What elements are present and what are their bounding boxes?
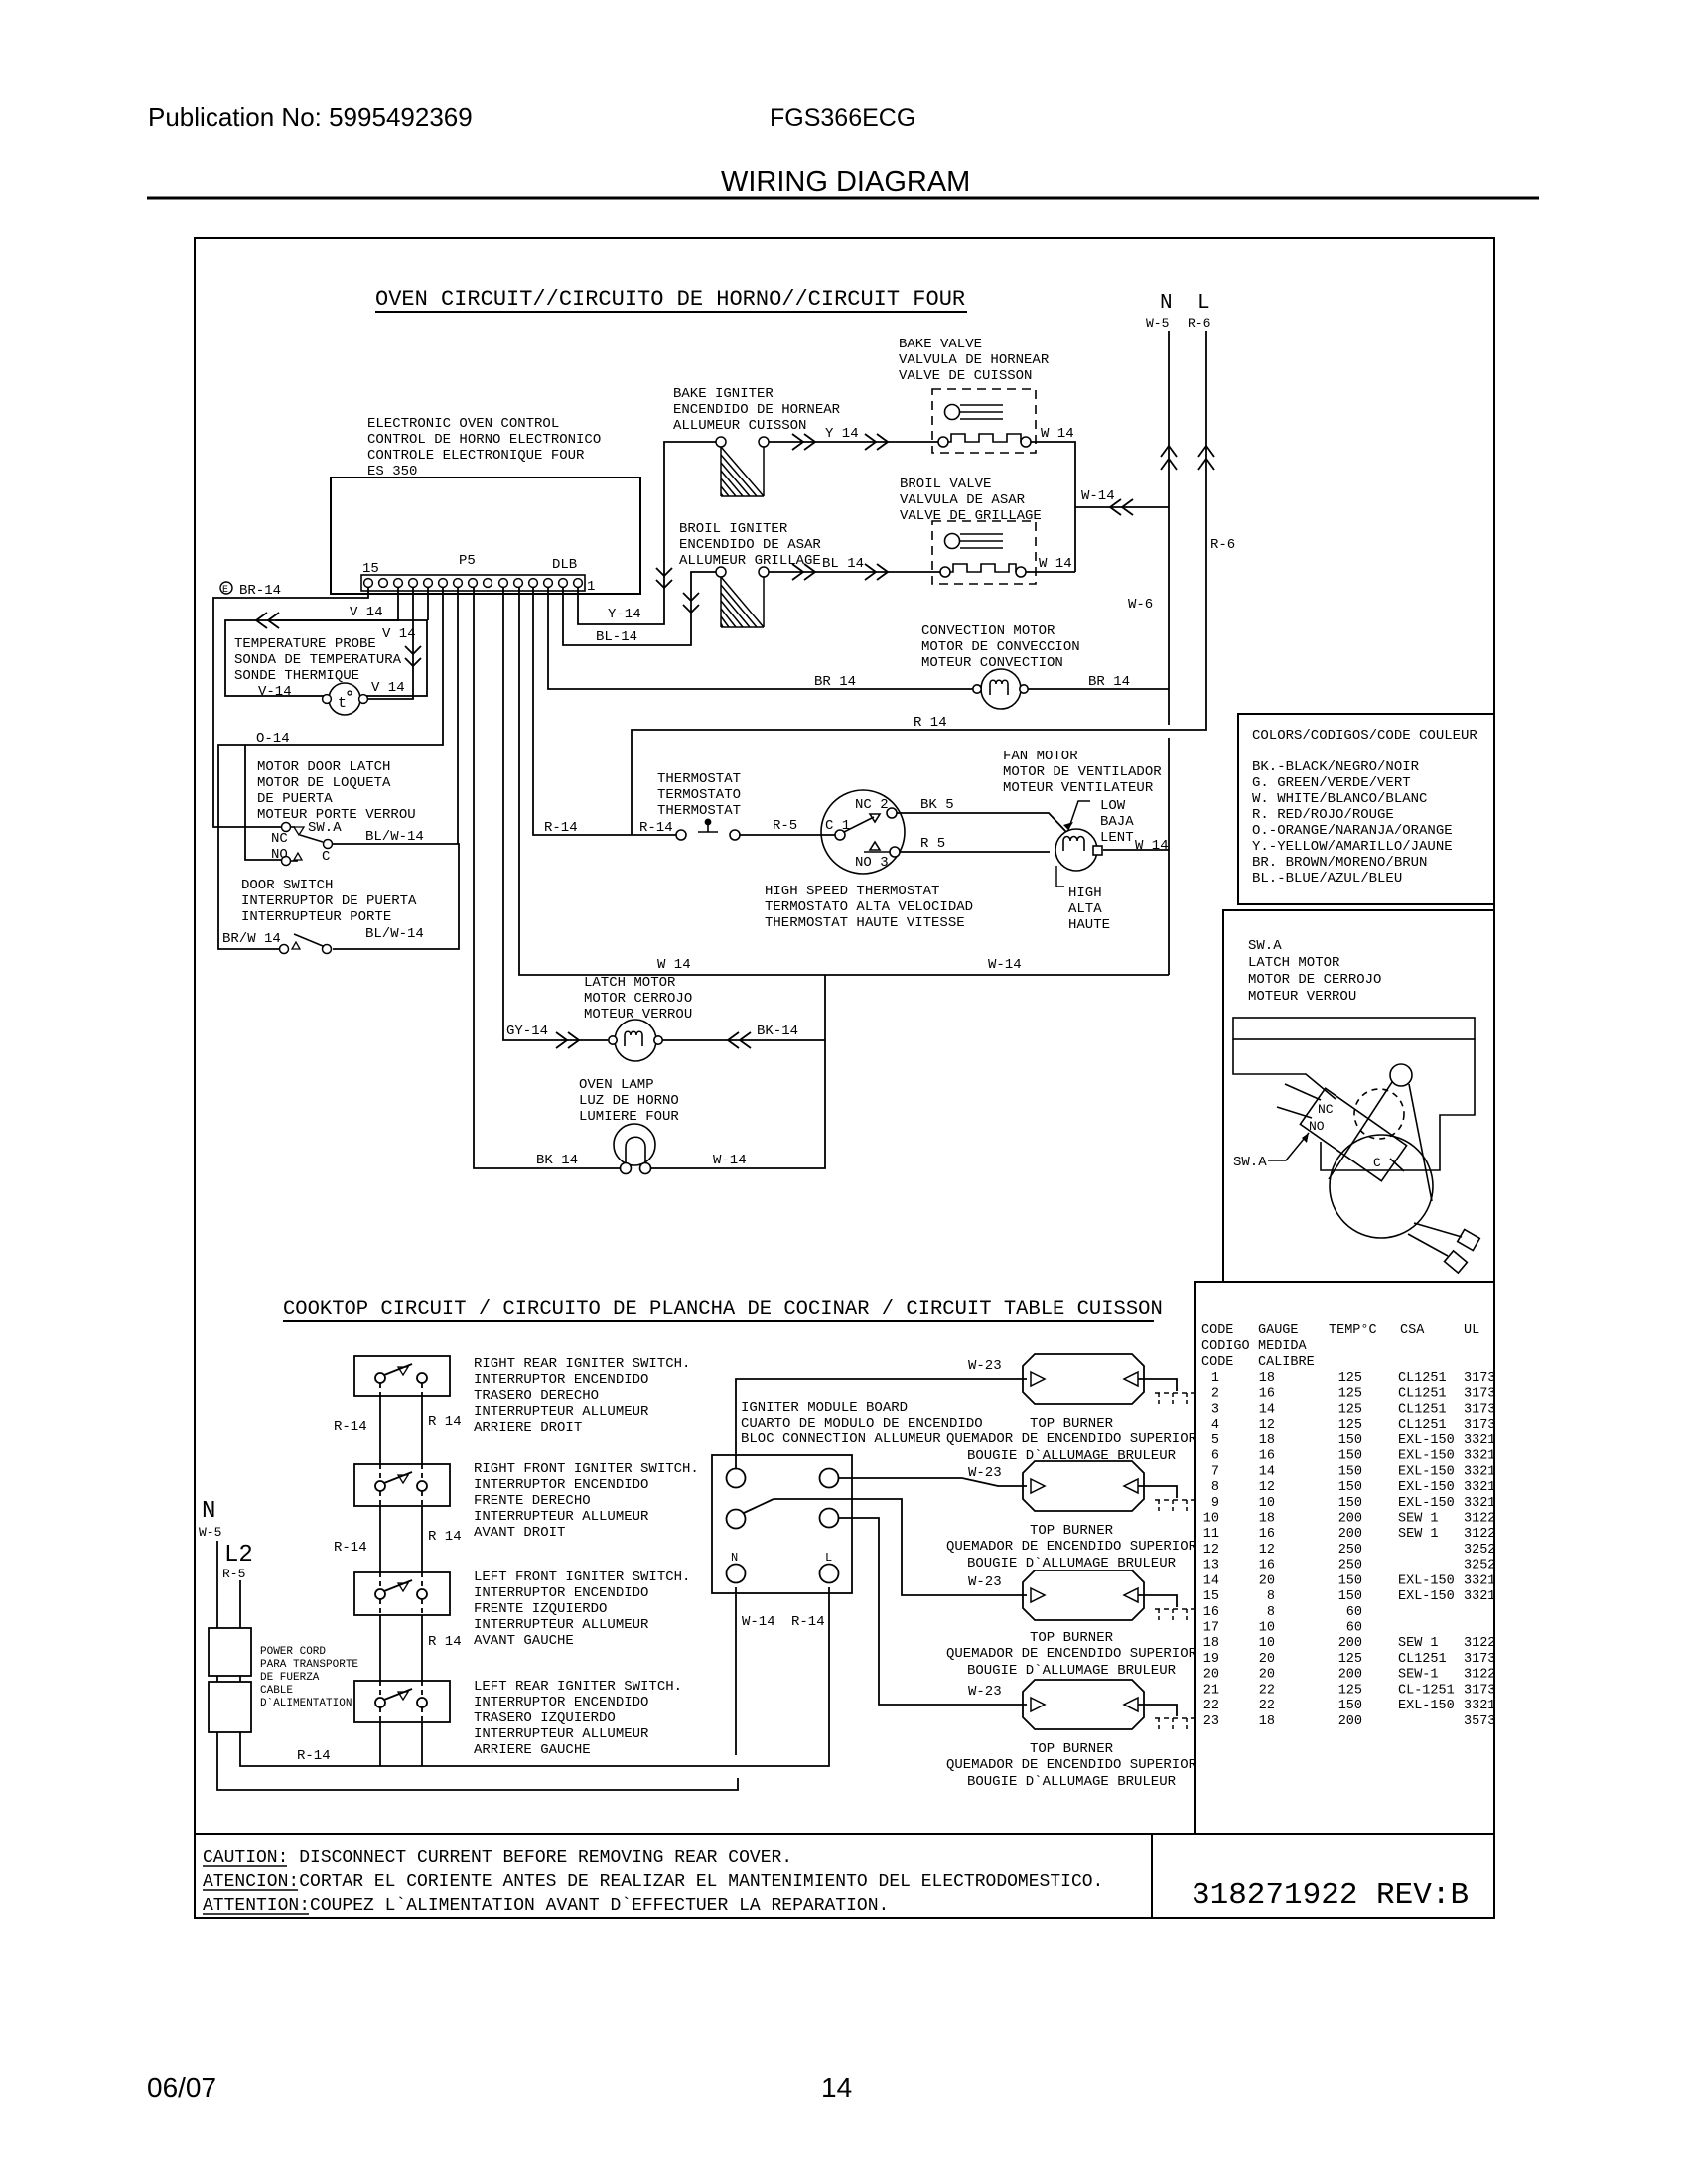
svg-text:SW.A: SW.A — [1233, 1155, 1267, 1170]
svg-text:21: 21 — [1203, 1683, 1219, 1698]
svg-text:SONDE THERMIQUE: SONDE THERMIQUE — [234, 668, 359, 684]
igniter module board A1 box — [712, 1455, 852, 1593]
svg-text:R 14: R 14 — [428, 1529, 462, 1545]
svg-text:O.-ORANGE/NARANJA/ORANGE: O.-ORANGE/NARANJA/ORANGE — [1252, 823, 1453, 839]
wire R-14 thermostat feed from pin 11 — [533, 587, 676, 835]
svg-text:TOP BURNER: TOP BURNER — [1030, 1630, 1114, 1646]
connector P5 pin circles — [364, 579, 583, 588]
svg-text:W 14: W 14 — [1135, 838, 1169, 854]
svg-text:CODE: CODE — [1201, 1323, 1233, 1338]
svg-text:EXL-150: EXL-150 — [1398, 1433, 1455, 1448]
label BK-5 — [920, 797, 954, 813]
label BK-14 lamp — [536, 1153, 578, 1168]
svg-text:12: 12 — [1259, 1543, 1275, 1558]
oven circuit section title — [375, 287, 967, 312]
svg-text:10: 10 — [1203, 1512, 1219, 1527]
svg-text:R 14: R 14 — [914, 715, 947, 731]
svg-text:AVANT GAUCHE: AVANT GAUCHE — [474, 1633, 574, 1649]
wire BL-14 from pin to broil igniter — [563, 572, 716, 645]
svg-text:125: 125 — [1338, 1652, 1362, 1667]
svg-text:ATTENTION:COUPEZ L`ALIMENTATIO: ATTENTION:COUPEZ L`ALIMENTATION AVANT D`… — [203, 1896, 889, 1916]
svg-text:W-14: W-14 — [1081, 488, 1115, 504]
svg-text:BK 5: BK 5 — [920, 797, 954, 813]
svg-text:CAUTION: DISCONNECT CURRENT BE: CAUTION: DISCONNECT CURRENT BEFORE REMOV… — [203, 1848, 792, 1868]
cooktop circuit section title — [283, 1298, 1163, 1321]
label R-5 fan — [920, 836, 945, 852]
label W-23 burner 2 — [968, 1465, 1002, 1481]
svg-text:COOKTOP CIRCUIT / CIRCUITO DE: COOKTOP CIRCUIT / CIRCUITO DE PLANCHA DE… — [283, 1298, 1163, 1321]
svg-text:23: 23 — [1203, 1714, 1219, 1729]
svg-text:TOP BURNER: TOP BURNER — [1030, 1523, 1114, 1539]
svg-text:CL-1251: CL-1251 — [1398, 1683, 1455, 1698]
svg-text:POWER CORD: POWER CORD — [260, 1646, 326, 1658]
svg-text:125: 125 — [1338, 1371, 1362, 1386]
svg-text:200: 200 — [1338, 1714, 1362, 1729]
motor door latch text — [257, 759, 416, 823]
svg-text:QUEMADOR DE ENCENDIDO SUPERIOR: QUEMADOR DE ENCENDIDO SUPERIOR — [946, 1539, 1197, 1555]
svg-text:V 14: V 14 — [371, 680, 405, 696]
svg-text:THERMOSTAT: THERMOSTAT — [657, 803, 741, 819]
bake valve text — [899, 337, 1050, 384]
valve V1 bake valve — [932, 389, 1036, 453]
svg-text:15: 15 — [362, 561, 379, 577]
wire board to top burner 3 — [774, 1499, 1027, 1595]
svg-text:3321: 3321 — [1464, 1496, 1495, 1511]
svg-text:16: 16 — [1203, 1605, 1219, 1620]
igniter IG2 broil hatched element — [716, 567, 769, 627]
svg-text:LATCH MOTOR: LATCH MOTOR — [584, 975, 676, 991]
svg-text:V 14: V 14 — [382, 626, 416, 642]
label R-14 bottom rail — [297, 1748, 331, 1764]
svg-text:TERMOSTATO: TERMOSTATO — [657, 787, 741, 803]
label W-6 — [1128, 597, 1153, 613]
svg-text:20: 20 — [1203, 1668, 1219, 1683]
svg-text:EXL-150: EXL-150 — [1398, 1699, 1455, 1713]
svg-text:SEW 1: SEW 1 — [1398, 1636, 1439, 1651]
top burner 3 spark electrode — [1155, 1609, 1195, 1623]
igniter switch SW2 right front box — [354, 1464, 450, 1506]
svg-text:14: 14 — [1259, 1402, 1275, 1417]
latch SW.A pointer label — [1233, 1133, 1309, 1170]
svg-text:BL 14: BL 14 — [822, 556, 864, 572]
right front igniter switch text — [474, 1461, 699, 1541]
svg-text:TOP BURNER: TOP BURNER — [1030, 1416, 1114, 1432]
svg-text:RIGHT REAR IGNITER SWITCH.: RIGHT REAR IGNITER SWITCH. — [474, 1356, 690, 1372]
label BK-14 — [757, 1024, 798, 1039]
svg-text:3321: 3321 — [1464, 1589, 1495, 1604]
svg-text:CABLE: CABLE — [260, 1685, 293, 1697]
label BR-14 right — [1088, 674, 1130, 690]
motor M2 fan motor — [1055, 829, 1102, 871]
svg-text:P5: P5 — [459, 553, 476, 569]
svg-text:250: 250 — [1338, 1543, 1362, 1558]
svg-text:16: 16 — [1259, 1449, 1275, 1464]
colors legend text — [1252, 728, 1477, 887]
svg-text:BL/W-14: BL/W-14 — [365, 829, 424, 845]
top burner 3 caption — [946, 1630, 1197, 1679]
latch motor connector rods — [1408, 1223, 1479, 1273]
svg-text:TOP BURNER: TOP BURNER — [1030, 1741, 1114, 1757]
svg-text:NC: NC — [1318, 1102, 1334, 1117]
svg-text:ENCENDIDO DE ASAR: ENCENDIDO DE ASAR — [679, 537, 821, 553]
svg-text:COLORS/CODIGOS/CODE COULEUR: COLORS/CODIGOS/CODE COULEUR — [1252, 728, 1477, 744]
svg-text:3173: 3173 — [1464, 1387, 1495, 1402]
igniter switch SW4 left rear box — [354, 1681, 450, 1722]
wire BL/W-14 from SW.A C to pin 7 and down to door switch — [333, 587, 459, 949]
svg-text:N: N — [731, 1551, 738, 1565]
latch motor text — [584, 975, 692, 1023]
svg-text:R-5: R-5 — [222, 1567, 245, 1581]
top burner 1 octagon — [1023, 1354, 1177, 1404]
svg-text:3321: 3321 — [1464, 1433, 1495, 1448]
footer page number — [821, 2072, 852, 2103]
svg-text:ALLUMEUR CUISSON: ALLUMEUR CUISSON — [673, 418, 806, 434]
svg-text:CODE: CODE — [1201, 1355, 1233, 1370]
svg-text:3321: 3321 — [1464, 1449, 1495, 1464]
lamp E1 oven lamp — [614, 1124, 655, 1174]
svg-text:8: 8 — [1211, 1480, 1219, 1495]
labels R-14 between switches — [334, 1414, 462, 1650]
svg-text:MOTEUR VERROU: MOTEUR VERROU — [1248, 989, 1356, 1005]
svg-text:7: 7 — [1211, 1464, 1219, 1479]
wire R-5 line rail cooktop — [240, 1580, 829, 1766]
svg-text:NO 3: NO 3 — [855, 855, 889, 871]
header title WIRING DIAGRAM — [721, 166, 970, 198]
label W-14 lamp — [713, 1153, 747, 1168]
wire W-5 neutral rail cooktop — [217, 1541, 738, 1790]
svg-text:FRENTE IZQUIERDO: FRENTE IZQUIERDO — [474, 1601, 607, 1617]
svg-text:FRENTE DERECHO: FRENTE DERECHO — [474, 1493, 591, 1509]
svg-text:TEMP°C: TEMP°C — [1329, 1323, 1377, 1338]
latch motor cam and body — [1329, 1064, 1433, 1238]
top burner 3 octagon — [1023, 1570, 1177, 1620]
svg-text:INTERRUPTOR DE PUERTA: INTERRUPTOR DE PUERTA — [241, 893, 417, 909]
svg-text:3173: 3173 — [1464, 1402, 1495, 1417]
convection motor text — [921, 623, 1080, 671]
door switch contacts — [280, 934, 332, 954]
svg-text:G. GREEN/VERDE/VERT: G. GREEN/VERDE/VERT — [1252, 775, 1411, 791]
latch motor panel box — [1223, 910, 1494, 1282]
label W-14 fan — [1135, 838, 1169, 854]
svg-text:MOTOR DE CONVECCION: MOTOR DE CONVECCION — [921, 639, 1080, 655]
svg-text:R-14: R-14 — [639, 820, 673, 836]
svg-text:318271922 REV:B: 318271922 REV:B — [1192, 1878, 1469, 1913]
svg-text:NO: NO — [1309, 1119, 1325, 1134]
svg-text:DOOR SWITCH: DOOR SWITCH — [241, 878, 333, 893]
node L2 label — [222, 1542, 253, 1581]
svg-text:3122: 3122 — [1464, 1668, 1495, 1683]
oven lamp text — [579, 1077, 679, 1125]
svg-text:3321: 3321 — [1464, 1480, 1495, 1495]
igniter module board caption — [741, 1400, 983, 1447]
svg-text:150: 150 — [1338, 1699, 1362, 1713]
header rule — [147, 197, 1539, 200]
svg-text:QUEMADOR DE ENCENDIDO SUPERIOR: QUEMADOR DE ENCENDIDO SUPERIOR — [946, 1757, 1197, 1773]
wire Y-14 igniter to bake valve with connectors — [769, 434, 938, 450]
svg-text:ELECTRONIC OVEN CONTROL: ELECTRONIC OVEN CONTROL — [367, 416, 559, 432]
svg-text:C 1: C 1 — [825, 818, 850, 834]
svg-text:MOTOR DE VENTILADOR: MOTOR DE VENTILADOR — [1003, 764, 1162, 780]
top burner 1 caption — [946, 1416, 1197, 1464]
svg-text:R-14: R-14 — [297, 1748, 331, 1764]
svg-text:CONVECTION MOTOR: CONVECTION MOTOR — [921, 623, 1055, 639]
label v-14 second — [382, 626, 416, 642]
svg-text:13: 13 — [1203, 1559, 1219, 1573]
svg-text:R. RED/ROJO/ROUGE: R. RED/ROJO/ROUGE — [1252, 807, 1394, 823]
svg-text:ENCENDIDO DE HORNEAR: ENCENDIDO DE HORNEAR — [673, 402, 841, 418]
igniter switch SW1 right rear box — [354, 1356, 450, 1396]
svg-text:W-14: W-14 — [742, 1614, 775, 1630]
part number revision — [1192, 1878, 1469, 1913]
svg-text:150: 150 — [1338, 1496, 1362, 1511]
node E marker and BR-14 label — [220, 582, 281, 599]
svg-text:LUMIERE FOUR: LUMIERE FOUR — [579, 1109, 679, 1125]
electronic oven control U1 box — [331, 478, 640, 594]
latch motor assembly mounting bracket — [1233, 1018, 1475, 1170]
label BL/W-14 lower — [365, 926, 424, 942]
broil valve text — [900, 477, 1042, 524]
svg-text:SW.A: SW.A — [308, 820, 342, 836]
svg-text:CODIGO: CODIGO — [1201, 1339, 1250, 1354]
wire R-14 left chain vertical — [379, 1383, 381, 1766]
svg-text:L: L — [1197, 292, 1210, 315]
label BR-14 left — [814, 674, 856, 690]
svg-text:W-5: W-5 — [1146, 316, 1169, 331]
svg-text:18: 18 — [1259, 1433, 1275, 1448]
header model number FGS366ECG — [770, 104, 915, 132]
svg-text:C: C — [322, 849, 330, 865]
top burner 2 caption — [946, 1523, 1197, 1571]
svg-text:3173: 3173 — [1464, 1652, 1495, 1667]
svg-text:V-14: V-14 — [258, 684, 292, 700]
wire R-14 right chain vertical — [421, 1383, 423, 1766]
svg-text:150: 150 — [1338, 1464, 1362, 1479]
svg-text:LATCH MOTOR: LATCH MOTOR — [1248, 955, 1340, 971]
svg-text:BL.-BLUE/AZUL/BLEU: BL.-BLUE/AZUL/BLEU — [1252, 871, 1402, 887]
switch SW.A contacts — [271, 820, 342, 866]
svg-text:DE FUERZA: DE FUERZA — [260, 1672, 320, 1684]
label W-14 bottom left — [657, 957, 691, 973]
svg-text:Y.-YELLOW/AMARILLO/JAUNE: Y.-YELLOW/AMARILLO/JAUNE — [1252, 839, 1453, 855]
svg-text:NO: NO — [271, 847, 288, 863]
svg-text:MEDIDA: MEDIDA — [1258, 1339, 1308, 1354]
wire code table header — [1201, 1323, 1479, 1370]
wire board to top burner 2 — [839, 1478, 1027, 1486]
svg-text:SONDA DE TEMPERATURA: SONDA DE TEMPERATURA — [234, 652, 402, 668]
svg-text:12: 12 — [1259, 1418, 1275, 1433]
svg-text:W-5: W-5 — [199, 1525, 221, 1540]
svg-text:125: 125 — [1338, 1387, 1362, 1402]
svg-text:SEW 1: SEW 1 — [1398, 1527, 1439, 1542]
svg-text:N: N — [1160, 292, 1173, 315]
top burner 4 spark electrode — [1155, 1718, 1195, 1732]
caution text — [203, 1848, 1103, 1916]
svg-text:22: 22 — [1259, 1683, 1275, 1698]
svg-text:BOUGIE D`ALLUMAGE BRULEUR: BOUGIE D`ALLUMAGE BRULEUR — [967, 1556, 1177, 1571]
svg-text:12: 12 — [1259, 1480, 1275, 1495]
svg-text:INTERRUPTOR ENCENDIDO: INTERRUPTOR ENCENDIDO — [474, 1477, 648, 1493]
svg-text:11: 11 — [1203, 1527, 1219, 1542]
svg-text:CL1251: CL1251 — [1398, 1371, 1447, 1386]
svg-text:1: 1 — [587, 579, 595, 595]
high speed thermostat caption — [765, 884, 973, 931]
svg-text:BROIL IGNITER: BROIL IGNITER — [679, 521, 788, 537]
svg-text:14: 14 — [821, 2072, 852, 2103]
wire L R-6 vertical rail turning into R-14 line — [632, 331, 1214, 835]
svg-text:FAN MOTOR: FAN MOTOR — [1003, 749, 1078, 764]
svg-text:EXL-150: EXL-150 — [1398, 1464, 1455, 1479]
connector P5 strip — [361, 553, 595, 595]
svg-text:3122: 3122 — [1464, 1527, 1495, 1542]
top burner 1 spark electrode — [1155, 1393, 1195, 1407]
svg-text:60: 60 — [1346, 1605, 1362, 1620]
svg-text:ARRIERE DROIT: ARRIERE DROIT — [474, 1420, 582, 1435]
thermostat S1 — [676, 819, 835, 840]
wire BK-5 from NC to fan motor — [897, 813, 1066, 832]
svg-text:W-23: W-23 — [968, 1574, 1002, 1590]
bake igniter text — [673, 386, 841, 434]
svg-text:3573: 3573 — [1464, 1714, 1495, 1729]
svg-text:Y 14: Y 14 — [825, 426, 859, 442]
svg-text:AVANT DROIT: AVANT DROIT — [474, 1525, 565, 1541]
svg-text:INTERRUPTEUR ALLUMEUR: INTERRUPTEUR ALLUMEUR — [474, 1509, 649, 1525]
svg-text:BK-14: BK-14 — [757, 1024, 798, 1039]
wire BR-14 convection to N rail — [1028, 688, 1169, 690]
svg-text:INTERRUPTEUR PORTE: INTERRUPTEUR PORTE — [241, 909, 391, 925]
wire broil valve to W-14 vertical — [1026, 571, 1075, 573]
svg-text:8: 8 — [1267, 1605, 1275, 1620]
svg-text:14: 14 — [1203, 1573, 1219, 1588]
label R-5 — [773, 818, 797, 834]
svg-text:5: 5 — [1211, 1433, 1219, 1448]
svg-text:125: 125 — [1338, 1683, 1362, 1698]
svg-text:CL1251: CL1251 — [1398, 1418, 1447, 1433]
svg-text:BR 14: BR 14 — [1088, 674, 1130, 690]
svg-text:MOTOR CERROJO: MOTOR CERROJO — [584, 991, 692, 1007]
igniter switch SW3 left front box — [354, 1572, 450, 1615]
left front igniter switch text — [474, 1570, 690, 1649]
svg-text:Publication No: 5995492369: Publication No: 5995492369 — [148, 102, 473, 132]
label HIGH ALTA HAUTE with leader — [1056, 866, 1110, 933]
node N cooktop label — [199, 1498, 221, 1540]
svg-text:INTERRUPTOR ENCENDIDO: INTERRUPTOR ENCENDIDO — [474, 1585, 648, 1601]
svg-text:PARA TRANSPORTE: PARA TRANSPORTE — [260, 1659, 358, 1671]
svg-text:BK 14: BK 14 — [536, 1153, 578, 1168]
svg-text:150: 150 — [1338, 1449, 1362, 1464]
label v-14 upper — [350, 605, 383, 620]
label BR/W-14 — [222, 931, 281, 947]
wire O-14 from pin 10 to door switch left — [218, 587, 443, 949]
svg-text:BAJA: BAJA — [1100, 814, 1134, 830]
svg-text:150: 150 — [1338, 1433, 1362, 1448]
svg-text:150: 150 — [1338, 1480, 1362, 1495]
label R-14 top line — [914, 715, 947, 731]
svg-text:10: 10 — [1259, 1496, 1275, 1511]
top burner 4 octagon — [1023, 1680, 1177, 1729]
svg-text:14: 14 — [1259, 1464, 1275, 1479]
svg-text:20: 20 — [1259, 1573, 1275, 1588]
svg-text:R-14: R-14 — [544, 820, 578, 836]
top burner 4 caption — [946, 1741, 1197, 1790]
label Y-14 — [608, 607, 641, 622]
svg-text:FGS366ECG: FGS366ECG — [770, 104, 915, 132]
svg-text:IGNITER MODULE BOARD: IGNITER MODULE BOARD — [741, 1400, 908, 1416]
svg-text:BR. BROWN/MORENO/BRUN: BR. BROWN/MORENO/BRUN — [1252, 855, 1427, 871]
svg-text:R-14: R-14 — [791, 1614, 825, 1630]
svg-text:150: 150 — [1338, 1589, 1362, 1604]
label BL-14 wire — [822, 556, 864, 572]
svg-text:W-14: W-14 — [713, 1153, 747, 1168]
svg-text:INTERRUPTEUR ALLUMEUR: INTERRUPTEUR ALLUMEUR — [474, 1404, 649, 1420]
wire code table rows — [1203, 1371, 1496, 1729]
svg-text:BK.-BLACK/NEGRO/NOIR: BK.-BLACK/NEGRO/NOIR — [1252, 759, 1420, 775]
svg-text:ARRIERE GAUCHE: ARRIERE GAUCHE — [474, 1742, 591, 1758]
svg-text:20: 20 — [1259, 1668, 1275, 1683]
svg-text:HAUTE: HAUTE — [1068, 917, 1110, 933]
svg-text:12: 12 — [1203, 1543, 1219, 1558]
svg-text:BL/W-14: BL/W-14 — [365, 926, 424, 942]
svg-text:LEFT FRONT IGNITER SWITCH.: LEFT FRONT IGNITER SWITCH. — [474, 1570, 690, 1585]
svg-text:W 14: W 14 — [1039, 556, 1072, 572]
svg-text:2: 2 — [1211, 1387, 1219, 1402]
svg-text:8: 8 — [1267, 1589, 1275, 1604]
svg-text:R 14: R 14 — [428, 1634, 462, 1650]
svg-text:3173: 3173 — [1464, 1371, 1495, 1386]
svg-text:GAUGE: GAUGE — [1258, 1323, 1299, 1338]
svg-text:6: 6 — [1211, 1449, 1219, 1464]
wire N W-5/W-6 vertical rail — [1161, 331, 1177, 975]
svg-text:R-6: R-6 — [1188, 316, 1210, 331]
svg-text:10: 10 — [1259, 1621, 1275, 1636]
svg-text:RIGHT FRONT IGNITER SWITCH.: RIGHT FRONT IGNITER SWITCH. — [474, 1461, 699, 1477]
wire W-14 lamp to right riser — [650, 975, 825, 1168]
svg-text:1: 1 — [1211, 1371, 1219, 1386]
wire BR-14 from pin 15 to SW.A NC — [213, 587, 368, 827]
svg-text:L2: L2 — [224, 1542, 253, 1569]
svg-text:OVEN LAMP: OVEN LAMP — [579, 1077, 654, 1093]
wire BL-14 igniter to broil valve with connectors — [769, 564, 940, 580]
svg-text:VALVE DE CUISSON: VALVE DE CUISSON — [899, 368, 1032, 384]
svg-text:LEFT REAR IGNITER SWITCH.: LEFT REAR IGNITER SWITCH. — [474, 1679, 682, 1695]
latch motor panel caption — [1248, 938, 1381, 1005]
label LOW BAJA LENT with leader — [1063, 798, 1134, 846]
svg-text:INTERRUPTEUR ALLUMEUR: INTERRUPTEUR ALLUMEUR — [474, 1617, 649, 1633]
svg-text:CUARTO DE MODULO DE ENCENDIDO: CUARTO DE MODULO DE ENCENDIDO — [741, 1416, 983, 1432]
svg-text:250: 250 — [1338, 1559, 1362, 1573]
svg-text:200: 200 — [1338, 1636, 1362, 1651]
svg-text:QUEMADOR DE ENCENDIDO SUPERIOR: QUEMADOR DE ENCENDIDO SUPERIOR — [946, 1432, 1197, 1447]
svg-text:125: 125 — [1338, 1418, 1362, 1433]
label V-14 right of probe — [371, 680, 405, 696]
svg-text:THERMOSTAT: THERMOSTAT — [657, 771, 741, 787]
svg-text:VALVULA DE HORNEAR: VALVULA DE HORNEAR — [899, 352, 1050, 368]
label BL/W-14 upper — [365, 829, 424, 845]
node N terminal label — [1146, 292, 1173, 331]
label R-14 left — [544, 820, 578, 836]
svg-text:125: 125 — [1338, 1402, 1362, 1417]
svg-text:CONTROL DE HORNO ELECTRONICO: CONTROL DE HORNO ELECTRONICO — [367, 432, 601, 448]
svg-text:3: 3 — [1211, 1402, 1219, 1417]
svg-text:3122: 3122 — [1464, 1636, 1495, 1651]
svg-text:UL: UL — [1464, 1323, 1479, 1338]
valve V2 broil valve — [932, 521, 1036, 584]
node L terminal label — [1188, 292, 1210, 331]
svg-text:W-14: W-14 — [988, 957, 1022, 973]
footer date — [147, 2072, 216, 2103]
svg-text:3173: 3173 — [1464, 1418, 1495, 1433]
svg-text:CONTROLE ELECTRONIQUE FOUR: CONTROLE ELECTRONIQUE FOUR — [367, 448, 585, 464]
svg-text:BR/W 14: BR/W 14 — [222, 931, 281, 947]
